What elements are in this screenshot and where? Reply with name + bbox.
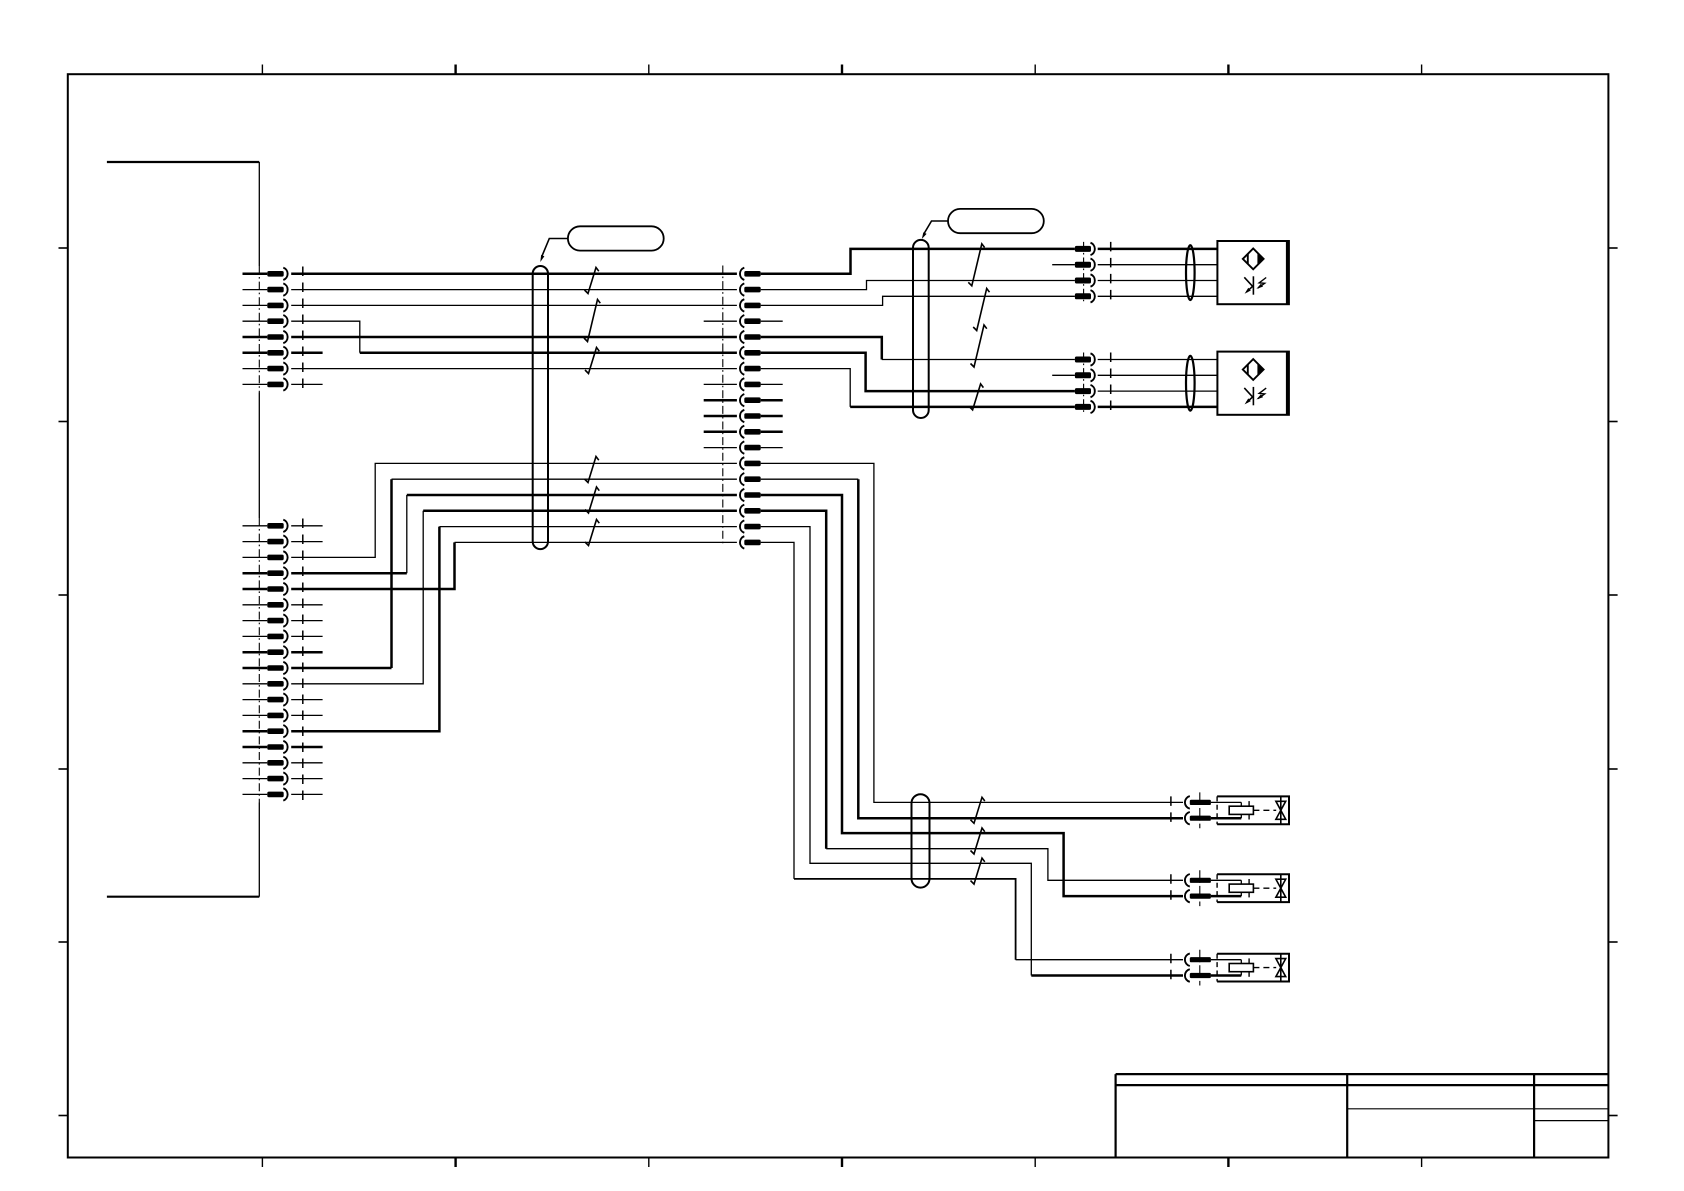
sensor B2 connector centerline (dash-dot): [1083, 353, 1085, 414]
valve Y2 mating line (dashed): [1170, 874, 1172, 902]
connector X3 unconnected pin stubs left: [704, 321, 737, 447]
cable count slash (X2 bundle wires 17-18): [585, 520, 599, 546]
connector X2 mating line (dashed): [302, 519, 304, 802]
wire X2.11 to X3.16: [291, 511, 423, 684]
valve Y2 coil leads: [1211, 880, 1241, 896]
wire X3.6 to sensor B2 pin3: [761, 353, 1075, 391]
sensor B2 mating line (dashed): [1110, 353, 1112, 414]
valve Y3 connector centerline (dash-dot): [1199, 950, 1201, 986]
sensor B2 pin2 stub: [1052, 374, 1075, 376]
wire X3.16 to valve Y2 pin1: [761, 511, 827, 849]
wire X1.5 to X3.5: [291, 336, 737, 339]
valve Y1 connector centerline (dash-dot): [1199, 792, 1201, 828]
cable count slash (sensor B2 wires): [971, 325, 987, 367]
title block inner divider lines: [1347, 1109, 1608, 1121]
valve Y2 armature line: [1248, 879, 1250, 897]
sensor B2 lens diamond symbol: [1243, 359, 1264, 380]
connector X1 mating line (dashed): [302, 267, 304, 393]
sensor B1 pin2 stub: [1052, 264, 1075, 266]
valve Y3 armature line: [1248, 958, 1250, 976]
cable shield capsule 3: [912, 794, 930, 887]
sensor B1 cable grommet: [1186, 245, 1195, 300]
sensor B1 receiver symbol: [1244, 276, 1266, 294]
valve Y2 check valve symbol: [1276, 874, 1286, 902]
valve Y1 coil leads: [1211, 802, 1241, 818]
valve Y1 mating line (dashed): [1170, 796, 1172, 824]
wire X2.14 to X3.17: [291, 527, 439, 732]
solenoid valve Y3 body: [1217, 954, 1289, 982]
sensor B1 mating line (dashed): [1110, 242, 1112, 303]
connector X1 body centerline (dash-dot): [258, 266, 260, 393]
wire X1.2 to X3.2: [291, 289, 737, 291]
PLC enclosure bottom edge: [107, 896, 259, 898]
sensor B2 connector (4 pins): [1075, 353, 1095, 413]
cable shield capsule 1: [533, 266, 548, 549]
wire X1.8 stub: [291, 383, 322, 385]
cable count slash (X2 bundle wires 13-14): [585, 457, 599, 483]
sensor B1 pigtail wires: [1098, 249, 1218, 296]
valve Y3 check valve symbol: [1276, 954, 1286, 982]
wire X2.5 to X3.18: [291, 542, 454, 589]
sensor B1 connector centerline (dash-dot): [1083, 242, 1085, 303]
wire X3.1 to sensor B1 pin1: [761, 249, 1075, 274]
callout balloon 1 leader: [542, 239, 568, 257]
callout balloon 1: [568, 226, 664, 250]
callout balloon 2 leader: [924, 221, 949, 235]
valve Y1 check valve symbol: [1276, 796, 1286, 824]
valve Y2 connector (2 pins): [1185, 874, 1211, 902]
valve Y1 connector (2 pins): [1185, 796, 1211, 824]
solenoid valve Y2 body: [1217, 874, 1289, 902]
connector X2 unconnected pin stubs: [291, 526, 322, 795]
valve Y2 connector centerline (dash-dot): [1199, 870, 1201, 906]
photoelectric sensor B2 body: [1217, 352, 1289, 415]
border tick marks top: [262, 65, 1421, 75]
cable count slash (X1 wires 3-5): [584, 300, 600, 342]
wire X1.3 to X3.3: [291, 304, 737, 306]
valve Y3 coil leads: [1211, 960, 1241, 976]
sensor B1 lens diamond symbol: [1243, 249, 1264, 270]
PLC enclosure right edge (solid segments): [258, 162, 260, 897]
cable count slash (sensor B1 wires): [968, 244, 984, 286]
connector X3 unconnected pin stubs right: [761, 321, 783, 447]
wire X3.5 to sensor B2 pin1: [761, 337, 882, 360]
border tick marks bottom: [262, 1158, 1421, 1168]
valve Y2 coil box: [1229, 884, 1253, 892]
valve Y3 connector (2 pins): [1185, 953, 1211, 981]
wire X1.4 jog to X3.6: [291, 321, 360, 353]
wire X3.2 to sensor B1 pin3: [761, 281, 1075, 290]
wire X1.7 to X3.7: [291, 368, 737, 370]
wire X1.1 to X3.1: [291, 273, 737, 276]
valve Y3 mating line (dashed): [1170, 954, 1172, 982]
callout balloon 2: [948, 209, 1044, 233]
cable count slash (X2 bundle wires 15-16): [585, 487, 599, 513]
cable count slash (valve Y1 pair): [971, 797, 985, 823]
connector X2 body centerline (dash-dot): [258, 518, 260, 803]
wire X2.10 to X3.14 (vertical thick): [291, 667, 391, 670]
wire X3.14 to valve Y1 pin2: [761, 478, 859, 480]
wire X3.18 to valve Y3 pin1: [761, 542, 794, 879]
valve Y1 actuation centerline (dash): [1253, 809, 1276, 811]
sensor B2 pigtail wires: [1098, 360, 1218, 407]
valve Y3 coil box: [1229, 964, 1253, 972]
cable count slash (sensor B1 wire 4): [973, 289, 989, 331]
wire X3.13 to valve Y1 pin1: [761, 463, 1183, 802]
wire X1.4 continued (thick run) to X3.6: [360, 352, 737, 355]
wire X3.7 to sensor B2 pin4: [761, 369, 851, 407]
wire X3.3 to sensor B1 pin4: [761, 296, 1075, 305]
valve Y3 actuation centerline (dash): [1253, 967, 1276, 969]
valve Y2 actuation centerline (dash): [1253, 887, 1276, 889]
callout balloon 2 arrowhead: [922, 232, 927, 239]
wire X3.17 to valve Y3 pin2: [761, 527, 1032, 976]
sensor B1 connector (4 pins): [1075, 243, 1095, 303]
cable shield capsule 2: [913, 240, 929, 418]
wire X1.6 stub: [291, 352, 322, 355]
cable count slash (X1 wires 1-2): [585, 268, 599, 294]
sensor B2 cable grommet: [1186, 356, 1195, 411]
title block outline: [1116, 1074, 1609, 1157]
solenoid valve Y1 body: [1217, 796, 1289, 824]
cable count slash (sensor B2 wires 3-4): [969, 384, 983, 410]
wire X2.3 to X3.13: [291, 463, 737, 557]
photoelectric sensor B1 body: [1217, 241, 1289, 304]
callout balloon 1 arrowhead: [540, 255, 544, 262]
connector X2 (PLC lower connector, 18 pins): [243, 520, 288, 801]
valve Y1 armature line: [1248, 801, 1250, 819]
wire X3.15 to valve Y2 pin2: [761, 495, 1183, 896]
sensor B2 receiver symbol: [1244, 387, 1266, 405]
connector X3 (cable junction connector, 18 pins): [740, 268, 761, 549]
connector X3 body centerline (dash-dot): [722, 266, 724, 547]
cable count slash (valve Y3 pair): [971, 858, 985, 884]
wire X2.4 to X3.15: [291, 572, 407, 575]
connector X1 (PLC upper connector, 8 pins): [243, 268, 288, 391]
border tick marks right: [1608, 248, 1617, 1116]
cable count slash (X1 wires 6-7): [585, 348, 599, 374]
border tick marks left: [59, 248, 68, 1116]
cable count slash (valve Y2 pair): [971, 828, 985, 854]
PLC enclosure top edge: [107, 161, 259, 163]
valve Y1 coil box: [1229, 806, 1253, 814]
